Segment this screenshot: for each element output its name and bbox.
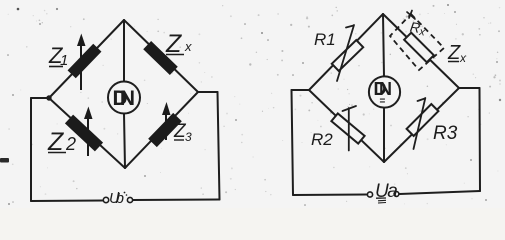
wire bottom right segment — [133, 199, 220, 202]
svg-text:R3: R3 — [433, 123, 458, 144]
label Z1 — [48, 43, 68, 69]
wire stub right node right bridge — [459, 87, 480, 89]
detector DN= (right circle) — [369, 76, 400, 107]
label Zx — [165, 30, 192, 58]
paper speckle noise — [163, 32, 165, 34]
impedance Z1 (filled box) — [68, 44, 102, 79]
svg-text:Z: Z — [447, 42, 461, 64]
wire arm bottom-left (L2 to B2) — [309, 90, 384, 162]
node L junction dot — [46, 95, 51, 100]
wire left vertical — [30, 98, 32, 201]
wire bottom left segment right bridge — [293, 194, 367, 197]
terminal circle left of Ua — [367, 192, 372, 197]
label Z2 — [47, 128, 76, 156]
wire arm top-right (T2 to R2n) — [383, 14, 459, 88]
wire right vertical right bridge — [479, 88, 482, 191]
svg-text:x: x — [184, 39, 192, 54]
label Ub (source voltage) — [109, 190, 127, 207]
wire detector upper (T2 to DN) — [383, 14, 384, 77]
impedance Zx (filled box) — [143, 41, 178, 75]
wire detector lower (DN to B) — [124, 114, 125, 169]
svg-text:Ub: Ub — [109, 190, 124, 207]
label Z3 — [173, 121, 192, 144]
wire bottom left segment — [31, 200, 103, 203]
wire stub left node right bridge — [292, 89, 310, 91]
svg-text:DN: DN — [113, 87, 136, 110]
dashed box corner tick — [407, 11, 415, 20]
wire stub left node — [31, 97, 49, 99]
label Ua (source voltage) — [375, 181, 397, 203]
impedance Z2 (filled box) — [65, 115, 103, 152]
wire arm top-left (T2 to L2) — [309, 14, 383, 90]
scan specks bottom left — [8, 203, 10, 205]
wire arm top-left (node T to node L) — [49, 20, 124, 98]
svg-text:R2: R2 — [311, 130, 333, 149]
wire arm bottom-right (B2 to R2n) — [384, 88, 459, 162]
adjust stroke through R1 — [337, 25, 354, 81]
arrow through Z1 — [77, 34, 86, 91]
svg-text:Ua: Ua — [375, 181, 397, 202]
label Zx right bridge — [447, 42, 467, 65]
wire right vertical — [218, 92, 220, 200]
svg-text:3: 3 — [185, 130, 192, 144]
wire arm top-right (node T to node R) — [124, 20, 198, 92]
arrow through R2 — [343, 106, 357, 151]
svg-text:R1: R1 — [314, 30, 336, 49]
arrow through Z2 — [84, 107, 93, 157]
impedance Z3 (filled box) — [148, 113, 182, 147]
resistor R1 (outline box) — [332, 40, 363, 71]
terminal circle left of Ub — [103, 197, 108, 202]
wire detector upper (T to DN) — [123, 20, 125, 82]
label Rx — [409, 19, 427, 39]
wire stub right node — [198, 91, 218, 93]
svg-text:x: x — [459, 51, 467, 65]
arrow through Z3 — [162, 102, 171, 140]
resistor R2 (outline box) — [331, 113, 364, 143]
adjust stroke through R3 — [414, 98, 426, 149]
wire detector lower (DN to B2) — [383, 108, 385, 163]
svg-text:2: 2 — [65, 134, 76, 154]
terminal circle right of Ua — [394, 192, 399, 197]
resistor R3 (outline box) — [407, 104, 439, 136]
wire arm bottom-right (node B to node R) — [125, 92, 198, 168]
terminal circle right of Ub — [127, 197, 132, 202]
wire bottom right segment right bridge — [400, 191, 481, 194]
resistor Rx (outline box inside dashed group) — [404, 33, 434, 63]
detector DN (left circle) — [108, 82, 140, 114]
scan artifact dash on left edge — [0, 158, 9, 163]
dashed box around Rx (equivalent Zx) — [390, 14, 444, 70]
wire left vertical right bridge — [292, 90, 294, 195]
wire arm bottom-left (node L to node B) — [49, 98, 125, 168]
svg-text:=: = — [380, 96, 386, 107]
